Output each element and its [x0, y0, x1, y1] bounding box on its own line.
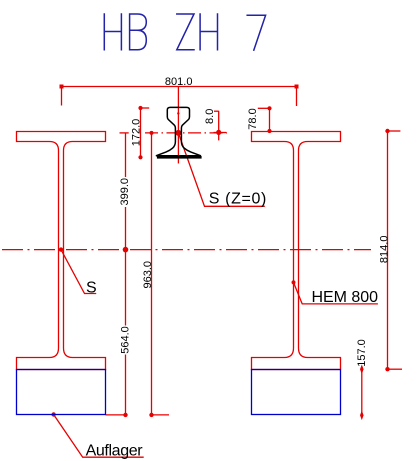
dim 172.0 top tail	[141, 107, 150, 109]
chain bottom tail left	[106, 414, 126, 416]
left support box Auflager	[17, 370, 106, 415]
dim 172.0 line	[140, 108, 142, 157]
dim 78.0 top tail	[258, 107, 270, 109]
rail base plate	[157, 156, 202, 159]
dim 157.0 line	[361, 369, 363, 415]
title HB ZH 7	[104, 14, 265, 50]
dim 801.0 right extension	[296, 87, 298, 107]
rail profile S	[156, 107, 201, 155]
svg-text:399.0: 399.0	[119, 178, 131, 206]
dim 814.0 line	[387, 131, 389, 369]
dim texts	[119, 76, 391, 367]
right support box Auflager	[252, 370, 341, 415]
digit 7	[247, 15, 265, 50]
svg-text:HEM 800: HEM 800	[312, 289, 379, 306]
svg-text:S: S	[86, 280, 97, 297]
letter Z	[177, 14, 194, 50]
chain bottom tail right	[152, 414, 170, 416]
red junction dots	[51, 85, 389, 421]
chain line 1 (399.0 / 564.0)	[125, 133, 127, 415]
rail centerline	[145, 132, 227, 134]
dim 801.0 left extension	[61, 87, 63, 106]
chain line 2 (963.0)	[151, 133, 153, 415]
svg-text:963.0: 963.0	[142, 261, 154, 289]
main horizontal centerline	[2, 249, 371, 251]
svg-text:814.0: 814.0	[379, 236, 391, 264]
dim 78.0 line	[269, 108, 271, 131]
svg-text:801.0: 801.0	[165, 76, 193, 88]
white masks for chain dim texts	[119, 177, 131, 355]
letter H2	[200, 14, 217, 50]
dim 8.0 top tail	[214, 110, 219, 112]
left beam outline	[17, 132, 106, 370]
leader HEM 800	[294, 282, 378, 304]
right beam outline	[252, 132, 341, 370]
dim 8.0 line	[218, 111, 220, 141]
svg-text:Auflager: Auflager	[86, 443, 144, 460]
svg-text:78.0: 78.0	[247, 108, 259, 129]
letter B	[130, 14, 147, 50]
leader S	[61, 250, 96, 294]
dim 814.0 bottom tail	[388, 368, 403, 370]
dim 8.0 cross tail	[214, 132, 227, 134]
svg-text:S (Z=0): S (Z=0)	[209, 190, 266, 207]
rail vertical centerline	[177, 87, 179, 164]
dim 801.0 line	[62, 86, 297, 88]
svg-text:8.0: 8.0	[204, 109, 216, 124]
dim 814.0 top tail	[388, 130, 401, 132]
chain line 1 top tick	[120, 132, 129, 134]
svg-text:172.0: 172.0	[131, 119, 143, 147]
svg-text:564.0: 564.0	[120, 326, 132, 354]
leader Auflager	[54, 415, 144, 458]
letter H	[104, 14, 121, 50]
svg-text:157.0: 157.0	[356, 339, 368, 367]
leader S (Z=0)	[178, 133, 264, 206]
